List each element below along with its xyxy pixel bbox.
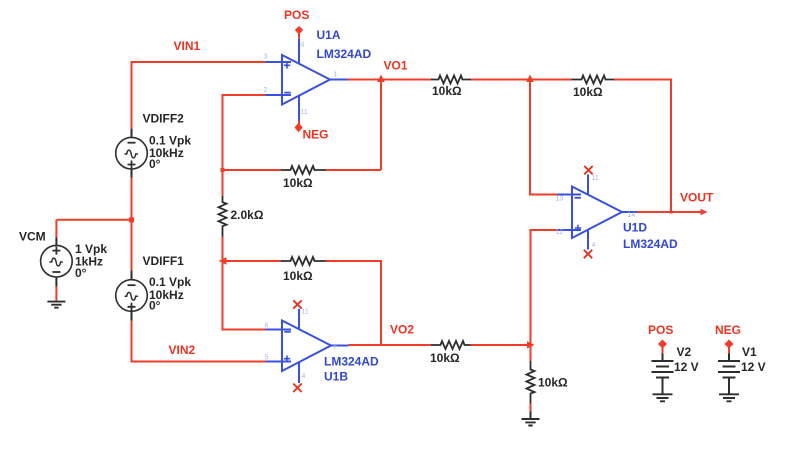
svg-text:5: 5 bbox=[265, 355, 269, 362]
op-amp U1B plus mark bbox=[284, 356, 290, 362]
source VDIFF2 circle bbox=[116, 137, 148, 169]
battery V1 plates bbox=[718, 361, 740, 378]
wire VIN2 (VDIFF1 bottom to U1B + input) bbox=[132, 321, 266, 362]
svg-text:NEG: NEG bbox=[303, 128, 329, 142]
X mark NC pin U1D top bbox=[584, 166, 592, 174]
op-amp U1D non-inverting input pin 12 bbox=[558, 229, 582, 231]
svg-text:10kΩ: 10kΩ bbox=[573, 85, 603, 99]
svg-text:10kΩ: 10kΩ bbox=[538, 376, 568, 390]
wire stub VDIFF1 bottom bbox=[131, 311, 133, 320]
X mark NC pin U1D bottom bbox=[584, 250, 592, 258]
wire VO1 junction down to feedback row bbox=[380, 80, 382, 171]
junction node A dot bbox=[221, 168, 225, 172]
battery V2 stem top bbox=[662, 354, 664, 361]
ground symbol below VCM bbox=[47, 302, 65, 308]
svg-text:11: 11 bbox=[301, 109, 308, 116]
wire 2.0k bottom to U1B inverting input bbox=[223, 237, 266, 330]
junction node B arrow (left pointing) bbox=[219, 257, 227, 264]
wire U1B feedback resistor right, down to VO2 row bbox=[326, 261, 381, 345]
wire ground resistor lower red segment bbox=[530, 404, 532, 412]
svg-text:LM324AD: LM324AD bbox=[324, 355, 379, 369]
op-amp U1B output pin 7 bbox=[331, 345, 349, 347]
symbol POS diamond at U1A bbox=[295, 26, 303, 34]
svg-text:VDIFF2: VDIFF2 bbox=[143, 112, 185, 126]
wire U1B output to VO2 series resistor bbox=[349, 344, 432, 346]
op-amp U1D top power pin (NC) bbox=[587, 175, 589, 195]
svg-text:13: 13 bbox=[556, 196, 564, 203]
wire stub VDIFF2 bottom bbox=[131, 169, 133, 178]
wire stub VDIFF1 top bbox=[131, 270, 133, 279]
svg-text:VDIFF1: VDIFF1 bbox=[143, 254, 185, 268]
op-amp U1D inverting input pin 13 bbox=[558, 194, 582, 196]
svg-text:V2: V2 bbox=[677, 345, 692, 359]
op-amp U1B non-inverting input pin 5 bbox=[266, 361, 292, 363]
svg-text:7: 7 bbox=[333, 345, 337, 352]
source VDIFF2 sine mark bbox=[125, 150, 138, 158]
wire NEG stem at V1 bbox=[728, 348, 730, 354]
op-amp U1A V- pin 11 bbox=[298, 95, 300, 120]
svg-text:10kΩ: 10kΩ bbox=[430, 351, 460, 365]
wire stub VDIFF2 top bbox=[131, 129, 133, 138]
op-amp U1B bottom power pin (NC) bbox=[298, 362, 300, 383]
svg-text:14: 14 bbox=[628, 212, 636, 219]
op-amp U1B top power pin (NC) bbox=[298, 309, 300, 329]
wire U1A feedback resistor right to VO1 column bbox=[326, 169, 381, 171]
svg-text:6: 6 bbox=[265, 323, 269, 330]
junction VO2 node arrow (right pointing) bbox=[527, 341, 535, 348]
svg-text:0°: 0° bbox=[149, 299, 161, 313]
wire R1 right to R2 left (node with U1D inv branch) bbox=[471, 79, 572, 81]
svg-text:3: 3 bbox=[264, 54, 268, 61]
op-amp U1D output pin 14 bbox=[622, 211, 637, 213]
op-amp U1A non-inverting input pin 3 bbox=[266, 61, 292, 63]
op-amp U1D bottom power pin (NC) bbox=[587, 230, 589, 250]
wire U1D non-inverting branch down through VO2 node to ground resistor bbox=[531, 230, 558, 361]
svg-text:POS: POS bbox=[648, 323, 673, 337]
svg-text:U1D: U1D bbox=[623, 221, 647, 235]
junction VO1 arrow (up pointing) bbox=[377, 75, 385, 82]
source VCM minus mark bbox=[52, 271, 60, 273]
ground symbol below V1 bbox=[719, 394, 739, 401]
junction U1D inv branch arrow (up pointing) bbox=[526, 75, 534, 82]
op-amp U1A triangle bbox=[282, 55, 330, 105]
op-amp U1D plus mark bbox=[575, 225, 581, 231]
op-amp U1B inverting input pin 6 bbox=[266, 329, 292, 331]
wire U1A inverting input from node A bbox=[223, 95, 266, 196]
battery V2 stem bottom bbox=[662, 378, 664, 394]
wire node VCM junction to VDIFF1 plus bbox=[131, 220, 133, 270]
battery V1 stem bottom bbox=[728, 378, 730, 394]
svg-text:VIN2: VIN2 bbox=[169, 343, 196, 357]
svg-text:NEG: NEG bbox=[715, 323, 741, 337]
wire VCM source to junction bbox=[56, 219, 131, 221]
op-amp U1A V+ pin 4 bbox=[298, 39, 300, 64]
wire U1D output to VOUT bbox=[637, 211, 701, 213]
svg-text:LM324AD: LM324AD bbox=[623, 237, 678, 251]
svg-text:11: 11 bbox=[592, 175, 599, 182]
resistor 10kOhm R series from VO1 bbox=[431, 76, 471, 84]
svg-text:12 V: 12 V bbox=[741, 360, 766, 374]
svg-text:VIN1: VIN1 bbox=[174, 39, 201, 53]
wire VO2 series resistor right to node bbox=[471, 344, 530, 346]
wire VDIFF2 minus to VCM node bbox=[131, 178, 133, 220]
wire node B to U1B feedback resistor left bbox=[223, 260, 282, 262]
op-amp U1D minus mark bbox=[575, 197, 581, 199]
svg-text:12 V: 12 V bbox=[674, 360, 699, 374]
svg-text:V1: V1 bbox=[742, 345, 757, 359]
resistor 10kOhm series from VO2 bbox=[431, 341, 471, 349]
op-amp U1A output pin 1 bbox=[330, 79, 348, 81]
svg-text:VO2: VO2 bbox=[390, 323, 414, 337]
wire stub VCM top bbox=[55, 238, 57, 246]
battery V1 stem top bbox=[728, 354, 730, 361]
junction VOUT feedback corner dot bbox=[670, 211, 673, 214]
resistor 10kOhm to ground bbox=[527, 361, 535, 404]
op-amp U1A minus mark bbox=[284, 92, 290, 94]
svg-text:4: 4 bbox=[592, 242, 596, 249]
op-amp U1B minus mark bbox=[284, 331, 290, 333]
source VDIFF1 minus mark bbox=[128, 284, 136, 286]
svg-text:0°: 0° bbox=[149, 157, 161, 171]
resistor 2.0kOhm vertical bbox=[219, 196, 227, 237]
wire VCM top stub (red part) bbox=[55, 220, 57, 238]
wire VCM bottom to ground (red part) bbox=[55, 287, 57, 302]
source VDIFF1 circle bbox=[116, 280, 148, 312]
source VCM plus mark bbox=[52, 247, 60, 255]
X mark NC pin U1B top bbox=[293, 300, 301, 308]
wire stub VCM bottom bbox=[55, 277, 57, 287]
svg-text:10kΩ: 10kΩ bbox=[283, 176, 313, 190]
symbol POS diamond at V2 bbox=[658, 340, 667, 349]
svg-text:0°: 0° bbox=[75, 266, 87, 280]
svg-text:VOUT: VOUT bbox=[680, 191, 714, 205]
symbol NEG diamond at U1A bbox=[295, 123, 303, 133]
svg-text:VO1: VO1 bbox=[384, 59, 408, 73]
op-amp U1B triangle bbox=[282, 321, 331, 372]
source VDIFF2 plus mark bbox=[128, 161, 136, 169]
resistor 10kOhm U1A feedback bbox=[281, 166, 326, 174]
svg-text:4: 4 bbox=[301, 42, 305, 49]
svg-text:10kΩ: 10kΩ bbox=[432, 84, 462, 98]
source VCM sine mark bbox=[49, 258, 62, 266]
svg-text:0.1 Vpk: 0.1 Vpk bbox=[149, 275, 191, 289]
X mark NC pin U1B bottom bbox=[293, 384, 301, 392]
ground symbol below V2 bbox=[653, 394, 673, 401]
svg-text:U1B: U1B bbox=[324, 370, 348, 384]
battery V2 plates bbox=[652, 361, 674, 378]
resistor 10kOhm U1D feedback bbox=[572, 76, 615, 84]
source VDIFF2 minus mark bbox=[128, 142, 136, 144]
wire U1A output to VO1 junction and R1 bbox=[348, 79, 432, 81]
svg-text:12: 12 bbox=[556, 229, 564, 236]
symbol NEG diamond at V1 bbox=[725, 340, 734, 349]
wire POS stem at U1A bbox=[298, 34, 300, 39]
svg-text:10kΩ: 10kΩ bbox=[283, 269, 313, 283]
resistor 10kOhm U1B feedback bbox=[281, 257, 326, 265]
wire U1D inverting branch from VO1 row junction bbox=[530, 80, 558, 195]
wire POS stem at V2 bbox=[662, 348, 664, 354]
svg-text:POS: POS bbox=[284, 8, 309, 22]
svg-text:U1A: U1A bbox=[317, 28, 341, 42]
wire NEG stem at U1A bbox=[298, 121, 300, 125]
svg-text:1: 1 bbox=[334, 72, 338, 79]
wire stub ground resistor to ground bbox=[530, 412, 532, 419]
svg-text:4: 4 bbox=[302, 373, 306, 380]
ground symbol below 10k resistor bbox=[522, 419, 540, 426]
svg-text:VCM: VCM bbox=[19, 230, 46, 244]
op-amp U1A inverting input pin 2 bbox=[266, 94, 292, 96]
source VDIFF1 plus mark bbox=[128, 303, 136, 311]
wire node A to feedback resistor left bbox=[223, 169, 282, 171]
wire VIN1 (source top to U1A + input) bbox=[132, 62, 266, 129]
svg-text:2.0kΩ: 2.0kΩ bbox=[231, 208, 264, 222]
svg-text:LM324AD: LM324AD bbox=[317, 47, 372, 61]
arrow VOUT terminal bbox=[701, 209, 708, 215]
source VDIFF1 sine mark bbox=[125, 292, 138, 300]
junction node VCM (square dot) bbox=[129, 217, 134, 222]
source VCM circle bbox=[41, 245, 73, 277]
op-amp U1A plus mark bbox=[284, 62, 290, 68]
op-amp U1D triangle bbox=[572, 187, 622, 239]
svg-text:11: 11 bbox=[302, 309, 309, 316]
wire R2 right, corner down to VOUT row bbox=[614, 80, 671, 213]
svg-text:2: 2 bbox=[264, 87, 268, 94]
